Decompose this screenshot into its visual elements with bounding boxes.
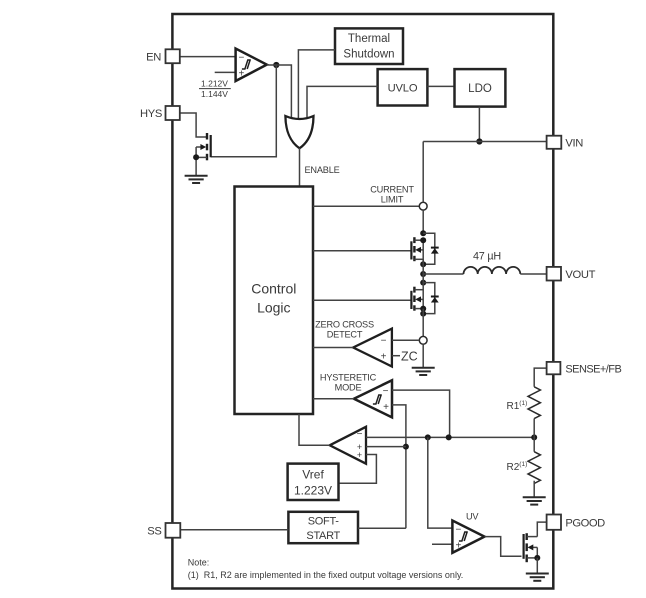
svg-text:CURRENT: CURRENT bbox=[370, 185, 414, 195]
block: Thermal Shutdown bbox=[335, 28, 403, 64]
svg-text:1.223V: 1.223V bbox=[294, 484, 332, 498]
pin HYS bbox=[166, 106, 180, 120]
op-amp error comparator bbox=[330, 427, 366, 464]
svg-text:HYS: HYS bbox=[140, 108, 162, 120]
wire: UV plus stub bbox=[432, 543, 452, 545]
diode D2 (body diode Q2) bbox=[423, 283, 439, 314]
pin VOUT bbox=[547, 267, 561, 281]
svg-text:−: − bbox=[381, 336, 387, 347]
pin EN bbox=[166, 49, 180, 63]
svg-text:HYSTERETIC: HYSTERETIC bbox=[320, 373, 377, 383]
node: Q3 source junction bbox=[534, 555, 540, 561]
wire: switch node to inductor bbox=[423, 273, 463, 275]
svg-text:START: START bbox=[306, 530, 340, 542]
node: Q4 source junction bbox=[193, 154, 199, 160]
svg-text:R1(1): R1(1) bbox=[507, 400, 528, 412]
svg-text:MODE: MODE bbox=[335, 383, 362, 393]
ground (R2) bbox=[523, 497, 546, 504]
resistor R2 bbox=[528, 452, 540, 484]
ground (PGOOD mosfet) bbox=[526, 574, 549, 581]
svg-text:−: − bbox=[383, 386, 389, 397]
IC outer border bbox=[172, 14, 553, 589]
pin PGOOD bbox=[547, 515, 561, 530]
svg-text:ZC: ZC bbox=[401, 350, 418, 364]
wire: rail down to ZC circle and ground bbox=[422, 309, 424, 337]
wire: comparator output to junction and OR input 1 bbox=[267, 65, 292, 118]
op-amp hysteretic comparator bbox=[354, 380, 392, 417]
svg-text:1.144V: 1.144V bbox=[201, 89, 228, 99]
svg-text:VIN: VIN bbox=[565, 137, 583, 149]
label 1.212V / 1.144V bbox=[199, 79, 231, 100]
wire: thermal shutdown to OR input 2 bbox=[298, 50, 335, 119]
wire: current limit to sense circle bbox=[313, 205, 419, 207]
svg-text:Note:: Note: bbox=[188, 557, 210, 567]
wire: R2 to ground bbox=[533, 481, 535, 498]
op-amp UV comparator bbox=[452, 521, 484, 553]
svg-text:ENABLE: ENABLE bbox=[305, 165, 340, 175]
wire: VIN horizontal rail bbox=[423, 141, 546, 143]
wire: junction down to HYS mosfet gate bbox=[211, 65, 276, 157]
block: LDO bbox=[455, 69, 506, 107]
svg-text:R2(1): R2(1) bbox=[507, 461, 528, 473]
svg-text:LIMIT: LIMIT bbox=[381, 195, 404, 205]
wire: ZC minus input to sense circle bbox=[392, 339, 419, 341]
wire: UVLO to OR input 3 bbox=[307, 86, 378, 117]
svg-text:+: + bbox=[383, 402, 389, 413]
inductor L1 47uH bbox=[464, 267, 521, 274]
svg-text:Control: Control bbox=[251, 281, 296, 297]
wire: feedback line to R1R2 bbox=[366, 436, 534, 438]
wire: inductor to VOUT pin bbox=[520, 273, 546, 275]
svg-text:−: − bbox=[239, 53, 245, 64]
svg-text:Logic: Logic bbox=[257, 300, 290, 316]
svg-text:VOUT: VOUT bbox=[565, 269, 595, 281]
wire: gate drive Q2 bbox=[313, 299, 411, 301]
node: ZC sense circle bbox=[419, 336, 427, 344]
wire: EN pin to comparator minus bbox=[180, 56, 236, 58]
wire: hyst minus to feedback line bbox=[392, 390, 450, 437]
wire: error plus2 to Vref bbox=[339, 455, 377, 484]
wire: LDO down to VIN rail bbox=[478, 107, 480, 142]
resistor R1 bbox=[528, 387, 540, 419]
ground (ZC rail) bbox=[412, 368, 435, 375]
svg-text:PGOOD: PGOOD bbox=[565, 518, 605, 530]
wire: switch node rail bbox=[422, 259, 424, 290]
wire: UVLO to LDO bbox=[427, 85, 454, 87]
svg-text:LDO: LDO bbox=[468, 83, 492, 95]
wire: Q3 source to ground bbox=[536, 558, 538, 574]
pin VIN bbox=[547, 136, 562, 149]
svg-text:−: − bbox=[357, 429, 363, 440]
wire: comparator plus stub bbox=[215, 71, 236, 73]
svg-text:DETECT: DETECT bbox=[327, 330, 363, 340]
block: Vref 1.223V bbox=[288, 464, 339, 500]
wire: VIN rail down through sense to Q1 bbox=[422, 142, 424, 203]
block: UVLO bbox=[378, 69, 428, 105]
svg-text:Thermal: Thermal bbox=[348, 33, 390, 45]
node: EN comparator output junction bbox=[273, 62, 279, 68]
wire: error output to control logic bottom bbox=[299, 414, 330, 445]
block: Control Logic bbox=[235, 187, 314, 415]
svg-text:−: − bbox=[456, 525, 462, 536]
op-amp EN comparator bbox=[236, 49, 267, 82]
block: SOFT-START bbox=[288, 512, 358, 543]
node: switch node dots bbox=[420, 261, 426, 267]
pin SS bbox=[166, 523, 181, 538]
pin SENSE+/FB bbox=[547, 362, 561, 374]
transistor Q4 (HYS mosfet) bbox=[196, 133, 211, 176]
svg-text:ZERO CROSS: ZERO CROSS bbox=[315, 320, 374, 330]
wire: R1 to junction bbox=[533, 419, 535, 452]
wire: UV minus branch from feedback bbox=[428, 437, 453, 528]
svg-text:Shutdown: Shutdown bbox=[343, 49, 394, 61]
op-amp ZC comparator bbox=[353, 329, 392, 367]
node: Q2 source junction bbox=[420, 306, 426, 312]
node: LDO/VIN junction bbox=[476, 138, 482, 144]
svg-text:(1) R1, R2 are implemented in: (1) R1, R2 are implemented in the fixed … bbox=[188, 570, 463, 580]
svg-text:EN: EN bbox=[146, 52, 161, 64]
wire: ZC output to control logic bbox=[313, 347, 353, 349]
svg-text:SENSE+/FB: SENSE+/FB bbox=[565, 363, 621, 375]
wire: soft-start output bbox=[358, 527, 406, 529]
wire: ZC plus stub bbox=[392, 355, 400, 357]
transistor Q2 (low side) bbox=[411, 287, 423, 314]
svg-text:+: + bbox=[239, 69, 245, 80]
node: current limit sense circle bbox=[419, 202, 427, 210]
wire: OR output ENABLE to control logic bbox=[299, 148, 301, 187]
wire: SS pin to soft-start bbox=[180, 529, 288, 531]
svg-text:47 µH: 47 µH bbox=[473, 251, 501, 263]
svg-text:SS: SS bbox=[147, 526, 161, 538]
svg-text:+: + bbox=[456, 541, 462, 552]
wire: SENSE pin to R1 bbox=[534, 368, 546, 387]
node: feedback junction dots bbox=[425, 434, 431, 440]
wire: gate drive Q1 bbox=[313, 250, 411, 252]
svg-text:UV: UV bbox=[466, 512, 479, 522]
node: Q1 drain junction bbox=[420, 230, 426, 236]
wire: HYS pin to mosfet bbox=[180, 113, 207, 137]
svg-text:Vref: Vref bbox=[302, 468, 324, 482]
transistor Q3 (PGOOD open drain) bbox=[524, 533, 538, 562]
transistor Q1 (high side) bbox=[411, 237, 423, 264]
svg-text:+: + bbox=[357, 450, 362, 460]
OR gate (enable) bbox=[285, 116, 313, 148]
diode D1 (body diode Q1) bbox=[423, 233, 439, 264]
ground (Q4) bbox=[185, 176, 208, 183]
wire: UV output to PGOOD mosfet gate bbox=[485, 537, 522, 557]
wire: hyst plus down to error plus / soft start bbox=[392, 405, 406, 528]
wire: Q3 drain to PGOOD pin bbox=[537, 522, 546, 537]
svg-text:+: + bbox=[381, 352, 387, 363]
wire: hyst output to control logic bbox=[313, 398, 354, 400]
svg-text:SOFT-: SOFT- bbox=[308, 516, 340, 528]
svg-text:1.212V: 1.212V bbox=[201, 79, 228, 89]
wire: error plus1 input bbox=[366, 446, 406, 448]
svg-text:UVLO: UVLO bbox=[388, 82, 418, 94]
